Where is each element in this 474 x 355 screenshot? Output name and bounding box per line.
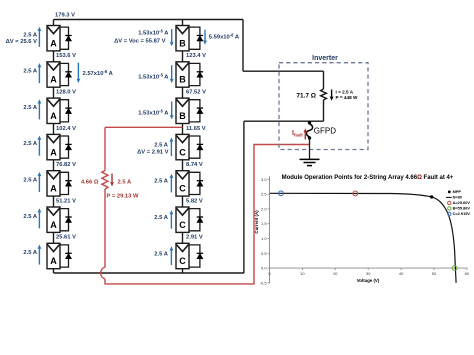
fault wire tap from 11.65V node bbox=[105, 126, 183, 128]
wire top rail (179.3 V net) bbox=[54, 19, 244, 21]
svg-text:0.0: 0.0 bbox=[261, 266, 267, 271]
current arrow string-1 module 4 bbox=[38, 136, 42, 156]
pv module C4 bbox=[176, 243, 189, 268]
fault resistor Rf 4.66 ohm bbox=[102, 171, 108, 190]
pv module A3 bbox=[47, 98, 60, 123]
svg-text:67.52 V: 67.52 V bbox=[186, 90, 206, 96]
svg-text:2.5 A: 2.5 A bbox=[154, 142, 168, 148]
pv module B3 bbox=[176, 98, 189, 123]
svg-text:40: 40 bbox=[399, 271, 404, 276]
bypass current arrow B1 bbox=[203, 30, 207, 45]
wire inverter feed vertical bbox=[242, 20, 244, 72]
pv module A5 bbox=[47, 171, 60, 196]
bypass current arrow A2 bbox=[77, 63, 81, 83]
svg-text:2.5 A: 2.5 A bbox=[23, 69, 37, 75]
svg-text:5.59x10-8 A: 5.59x10-8 A bbox=[209, 32, 240, 40]
svg-text:0: 0 bbox=[268, 271, 271, 276]
fault wire hop over bottom rail bbox=[101, 267, 105, 279]
wire GFPD to ground bbox=[309, 137, 311, 159]
wire bottom rail (0 V net) bbox=[54, 272, 244, 274]
svg-text:C: C bbox=[179, 184, 186, 194]
svg-text:C: C bbox=[179, 147, 186, 157]
svg-text:A: A bbox=[50, 184, 57, 194]
bypass loop B1 bbox=[189, 27, 200, 49]
svg-text:2.0: 2.0 bbox=[261, 206, 267, 211]
svg-text:Module Operation Points for 2-: Module Operation Points for 2-String Arr… bbox=[282, 175, 454, 181]
bypass diode C2 bbox=[197, 181, 203, 186]
chart y tick labels bbox=[268, 178, 270, 180]
svg-text:2.91 V: 2.91 V bbox=[186, 235, 203, 241]
wire string-2 node 6 bbox=[182, 232, 184, 244]
svg-text:ΔV = Voc = 55.87 V: ΔV = Voc = 55.87 V bbox=[114, 38, 166, 44]
fault wire down to resistor bbox=[104, 127, 106, 170]
wire string-2 node 2 bbox=[182, 87, 184, 99]
svg-text:A: A bbox=[50, 38, 57, 48]
GFPD terminal dot top bbox=[308, 121, 311, 124]
bypass loop A6 bbox=[60, 209, 69, 231]
bypass loop C4 bbox=[189, 245, 200, 267]
svg-text:2.5 A: 2.5 A bbox=[23, 105, 37, 111]
chart y axis bbox=[269, 177, 271, 284]
point B=55.86V bbox=[452, 266, 457, 271]
GFPD fuse element bbox=[306, 124, 312, 137]
fault wire below resistor bbox=[104, 189, 106, 267]
wire string-1 node 5 bbox=[53, 196, 55, 208]
pv module A1 bbox=[47, 26, 60, 51]
svg-text:30: 30 bbox=[366, 271, 371, 276]
svg-text:2.5: 2.5 bbox=[261, 192, 267, 197]
bypass diode B1 bbox=[197, 36, 203, 41]
svg-text:50: 50 bbox=[432, 271, 437, 276]
svg-text:B=55.86V: B=55.86V bbox=[453, 206, 471, 211]
wire inverter feed horizontal bbox=[243, 70, 324, 72]
current arrow string-1 module 1 bbox=[38, 27, 42, 47]
svg-text:11.65 V: 11.65 V bbox=[186, 126, 206, 132]
chart x axis bbox=[270, 267, 468, 269]
svg-text:A: A bbox=[50, 220, 57, 230]
current arrow C2 bbox=[170, 174, 174, 193]
bypass diode C1 bbox=[197, 144, 203, 149]
pv module C1 bbox=[176, 134, 189, 159]
pv module C3 bbox=[176, 207, 189, 232]
svg-text:76.82 V: 76.82 V bbox=[56, 162, 76, 168]
svg-text:123.4 V: 123.4 V bbox=[186, 53, 206, 59]
svg-text:B: B bbox=[179, 38, 186, 48]
svg-text:2.5 A: 2.5 A bbox=[23, 250, 37, 256]
svg-text:P = 29.13 W: P = 29.13 W bbox=[107, 193, 139, 199]
svg-text:Ifault: Ifault bbox=[292, 130, 303, 138]
bypass loop B2 bbox=[189, 63, 200, 85]
svg-text:C: C bbox=[179, 256, 186, 266]
bypass loop C2 bbox=[189, 172, 200, 194]
wire string-1 bottom stub bbox=[53, 268, 55, 273]
pv module B1 bbox=[176, 26, 189, 51]
wire string-1 node 3 bbox=[53, 123, 55, 135]
bypass loop A4 bbox=[60, 136, 69, 158]
svg-text:2.57x10-8 A: 2.57x10-8 A bbox=[83, 69, 114, 77]
bypass loop C1 bbox=[189, 136, 200, 158]
svg-text:N=80: N=80 bbox=[453, 195, 462, 200]
svg-text:GFPD: GFPD bbox=[314, 127, 336, 136]
current arrow C3 bbox=[170, 210, 174, 229]
svg-text:I = 2.5 A: I = 2.5 A bbox=[336, 89, 354, 94]
svg-text:2.5 A: 2.5 A bbox=[23, 32, 37, 38]
bypass diode A6 bbox=[65, 217, 71, 222]
svg-text:MPP: MPP bbox=[453, 189, 462, 194]
current arrow string-1 module 6 bbox=[38, 208, 42, 228]
bypass loop B3 bbox=[189, 100, 200, 122]
wire resistor top stub bbox=[323, 71, 325, 89]
current arrow string-1 module 3 bbox=[38, 99, 42, 119]
IV curve N=80 bbox=[270, 193, 456, 282]
point A=25.60V bbox=[353, 191, 358, 196]
svg-text:1.53x10-5 A: 1.53x10-5 A bbox=[138, 72, 169, 80]
svg-text:2.5 A: 2.5 A bbox=[23, 214, 37, 220]
current arrow C4 bbox=[170, 246, 174, 265]
svg-text:1.0: 1.0 bbox=[261, 236, 267, 241]
chart x tick labels bbox=[269, 268, 271, 270]
current arrow B1 bbox=[170, 29, 174, 46]
pv module B2 bbox=[176, 62, 189, 87]
chart legend bbox=[446, 189, 471, 216]
ground symbol bbox=[300, 159, 320, 165]
bypass loop C3 bbox=[189, 209, 200, 231]
svg-text:2.5 A: 2.5 A bbox=[154, 251, 168, 257]
svg-text:179.3 V: 179.3 V bbox=[55, 13, 75, 19]
svg-text:A: A bbox=[50, 256, 57, 266]
svg-text:2.5 A: 2.5 A bbox=[154, 179, 168, 185]
svg-text:Current (A): Current (A) bbox=[254, 210, 259, 234]
svg-text:4.66 Ω: 4.66 Ω bbox=[81, 180, 99, 186]
GFPD terminal dot bottom bbox=[308, 136, 311, 139]
svg-text:71.7 Ω: 71.7 Ω bbox=[296, 93, 316, 100]
svg-text:8.74 V: 8.74 V bbox=[186, 162, 203, 168]
pv module A2 bbox=[47, 62, 60, 87]
bypass diode C4 bbox=[197, 253, 203, 258]
wire string-2 bottom stub bbox=[182, 268, 184, 273]
load current arrow bbox=[330, 90, 334, 101]
svg-text:2.5 A: 2.5 A bbox=[23, 141, 37, 147]
wire string-1 node 6 bbox=[53, 232, 55, 244]
MPP point bbox=[430, 195, 433, 198]
svg-text:A=25.60V: A=25.60V bbox=[453, 200, 471, 205]
bypass diode A1 bbox=[65, 36, 71, 41]
pv module C2 bbox=[176, 171, 189, 196]
current arrow string-1 module 2 bbox=[38, 63, 42, 83]
wire string-1 top stub bbox=[53, 20, 55, 26]
svg-text:Voltage (V): Voltage (V) bbox=[357, 278, 380, 283]
current arrow B3 bbox=[170, 102, 174, 120]
svg-text:B: B bbox=[179, 111, 186, 121]
svg-text:25.61 V: 25.61 V bbox=[56, 235, 76, 241]
wire string-2 node 5 bbox=[182, 196, 184, 208]
Ifault arrow bbox=[303, 128, 307, 139]
bypass loop A7 bbox=[60, 245, 69, 267]
svg-text:128.0 V: 128.0 V bbox=[56, 90, 76, 96]
svg-text:ΔV = 2.91 V: ΔV = 2.91 V bbox=[137, 149, 169, 155]
svg-text:-0.5: -0.5 bbox=[260, 280, 268, 285]
svg-text:ΔV = 25.6 V: ΔV = 25.6 V bbox=[6, 39, 38, 45]
svg-text:2.5 A: 2.5 A bbox=[154, 215, 168, 221]
bypass loop A3 bbox=[60, 100, 69, 122]
svg-text:C: C bbox=[179, 220, 186, 230]
svg-text:51.21 V: 51.21 V bbox=[56, 198, 76, 204]
fault wire to red rail bbox=[105, 145, 310, 284]
current arrow string-1 module 7 bbox=[38, 245, 42, 265]
bypass loop A5 bbox=[60, 172, 69, 194]
inverter dashed box bbox=[279, 63, 368, 150]
bypass loop A1 bbox=[60, 27, 69, 49]
wire GFPD upper stub bbox=[309, 121, 311, 124]
pv module A7 bbox=[47, 243, 60, 268]
wire string-1 node 2 bbox=[53, 87, 55, 99]
bypass diode A5 bbox=[65, 181, 71, 186]
wire string-1 node 4 bbox=[53, 159, 55, 171]
wire string-1 node 1 bbox=[53, 51, 55, 63]
wire inverter return riser bbox=[243, 121, 245, 273]
svg-text:A: A bbox=[50, 111, 57, 121]
svg-text:1.53x10-5 A: 1.53x10-5 A bbox=[138, 109, 169, 117]
pv module A6 bbox=[47, 207, 60, 232]
svg-text:Inverter: Inverter bbox=[312, 55, 338, 62]
point C=2.915V bbox=[279, 191, 284, 196]
wire string-2 node 4 bbox=[182, 159, 184, 171]
wire inverter return horizontal bbox=[244, 120, 324, 122]
bypass loop A2 bbox=[60, 63, 69, 85]
bypass diode A4 bbox=[65, 144, 71, 149]
svg-text:3.0: 3.0 bbox=[261, 177, 267, 182]
current arrow C1 bbox=[170, 137, 174, 156]
bypass diode C3 bbox=[197, 217, 203, 222]
svg-text:60: 60 bbox=[465, 271, 470, 276]
svg-text:P = 448 W: P = 448 W bbox=[336, 95, 359, 100]
svg-text:153.6 V: 153.6 V bbox=[56, 53, 76, 59]
svg-text:A: A bbox=[50, 147, 57, 157]
svg-text:B: B bbox=[179, 75, 186, 85]
svg-text:2.5 A: 2.5 A bbox=[118, 180, 132, 186]
fault current arrow bbox=[110, 174, 114, 187]
svg-text:A: A bbox=[50, 75, 57, 85]
wire string-2 top stub bbox=[182, 20, 184, 26]
svg-text:102.4 V: 102.4 V bbox=[56, 126, 76, 132]
svg-text:1.53x10-5 A: 1.53x10-5 A bbox=[138, 28, 169, 36]
current arrow B2 bbox=[170, 65, 174, 83]
bypass diode A3 bbox=[65, 108, 71, 113]
bypass diode A7 bbox=[65, 253, 71, 258]
wire resistor bottom stub bbox=[323, 100, 325, 121]
bypass diode B3 bbox=[197, 108, 203, 113]
svg-text:20: 20 bbox=[333, 271, 338, 276]
bypass diode A2 bbox=[65, 72, 71, 77]
svg-text:2.5 A: 2.5 A bbox=[23, 178, 37, 184]
pv module A4 bbox=[47, 134, 60, 159]
svg-text:10: 10 bbox=[300, 271, 305, 276]
svg-text:1.5: 1.5 bbox=[261, 221, 267, 226]
svg-text:C=2.915V: C=2.915V bbox=[453, 211, 471, 216]
current arrow string-1 module 5 bbox=[38, 172, 42, 192]
wire string-2 node 3 bbox=[182, 123, 184, 135]
wire string-2 node 1 bbox=[182, 51, 184, 63]
resistor R-load 71.7 ohm bbox=[321, 89, 327, 100]
svg-text:0.5: 0.5 bbox=[261, 251, 267, 256]
bypass diode B2 bbox=[197, 72, 203, 77]
svg-text:5.82 V: 5.82 V bbox=[186, 198, 203, 204]
